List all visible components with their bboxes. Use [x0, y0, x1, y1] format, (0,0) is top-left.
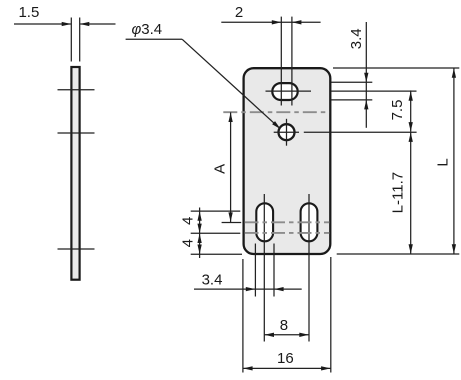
- svg-text:φ3.4: φ3.4: [132, 21, 163, 38]
- svg-text:L: L: [435, 158, 452, 166]
- svg-text:2: 2: [235, 4, 243, 21]
- svg-text:3.4: 3.4: [202, 272, 223, 289]
- svg-text:A: A: [212, 164, 229, 174]
- svg-text:7.5: 7.5: [389, 100, 406, 121]
- svg-text:1.5: 1.5: [18, 4, 39, 21]
- svg-text:4: 4: [179, 239, 196, 247]
- svg-text:3.4: 3.4: [348, 28, 365, 49]
- svg-text:8: 8: [280, 317, 288, 334]
- svg-text:L-11.7: L-11.7: [390, 172, 407, 213]
- svg-text:16: 16: [277, 350, 294, 367]
- svg-text:4: 4: [179, 217, 196, 225]
